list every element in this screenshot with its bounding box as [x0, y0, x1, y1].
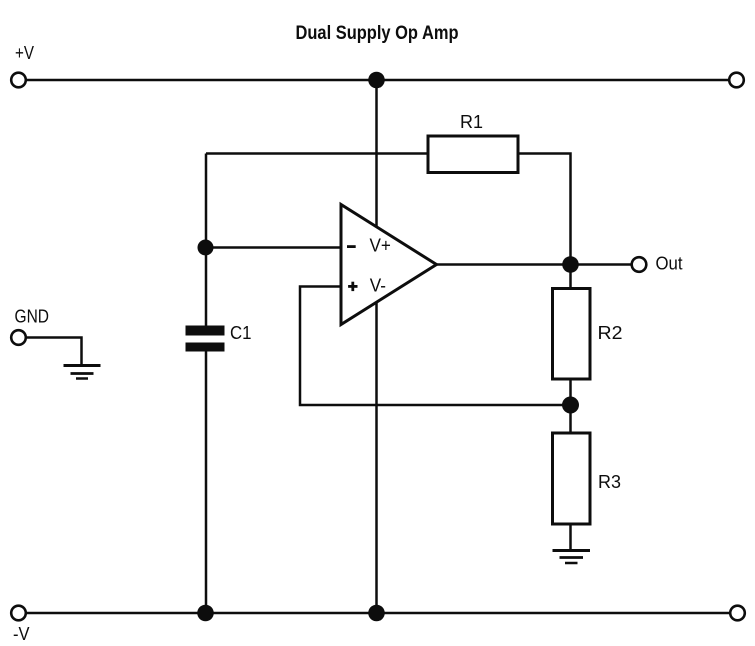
svg-text:C1: C1	[230, 323, 252, 343]
junction output node	[562, 256, 579, 273]
resistor R1	[428, 136, 518, 173]
wire -V bottom rail	[19, 612, 738, 615]
wire R2 to R3	[569, 379, 572, 433]
capacitor C1 plate top	[186, 326, 225, 336]
ground symbol GND	[64, 366, 101, 379]
terminal Out	[632, 257, 647, 272]
wire inverting node vertical upper	[205, 154, 208, 328]
wire non-inverting feedback	[300, 287, 571, 406]
op-amp inverting pin mark	[347, 245, 356, 248]
wire C1 to -V rail	[205, 349, 208, 613]
wire R1 right to output node	[518, 154, 571, 266]
resistor R2	[553, 289, 591, 380]
op-amp U1	[341, 205, 437, 325]
wire output node to R2	[569, 265, 572, 289]
terminal +V	[11, 73, 26, 88]
svg-text:V+: V+	[370, 236, 391, 256]
junction top rail	[368, 72, 385, 89]
wire R3 to ground	[569, 524, 572, 550]
terminal -V	[11, 606, 26, 621]
resistor R3	[553, 433, 591, 524]
junction inverting node	[198, 240, 214, 256]
svg-text:R3: R3	[598, 472, 621, 492]
wire inverting input	[206, 246, 343, 249]
terminal bottom right	[730, 606, 745, 621]
svg-text:+V: +V	[15, 43, 34, 63]
svg-text:Dual Supply Op Amp: Dual Supply Op Amp	[296, 23, 459, 44]
op-amp non-inverting pin mark	[348, 282, 357, 291]
wire V+ supply to op-amp	[375, 80, 378, 230]
terminal top right	[729, 73, 744, 88]
wire op-amp output	[437, 263, 633, 266]
svg-text:R1: R1	[460, 112, 483, 132]
svg-text:V-: V-	[370, 276, 386, 296]
svg-text:GND: GND	[15, 307, 50, 327]
ground symbol right	[553, 551, 591, 564]
wire +V top rail	[19, 79, 737, 82]
junction bottom rail left	[197, 605, 214, 622]
junction R2-R3 node	[562, 397, 579, 414]
wire GND terminal	[26, 338, 82, 365]
svg-text:-V: -V	[13, 624, 30, 644]
svg-text:R2: R2	[598, 323, 623, 343]
wire feedback to R1 left	[206, 152, 428, 155]
terminal GND	[11, 330, 26, 345]
svg-text:Out: Out	[656, 254, 683, 274]
junction bottom rail right	[368, 605, 385, 622]
wire V- supply to -V rail	[375, 300, 378, 613]
capacitor C1 plate bottom	[186, 343, 225, 352]
